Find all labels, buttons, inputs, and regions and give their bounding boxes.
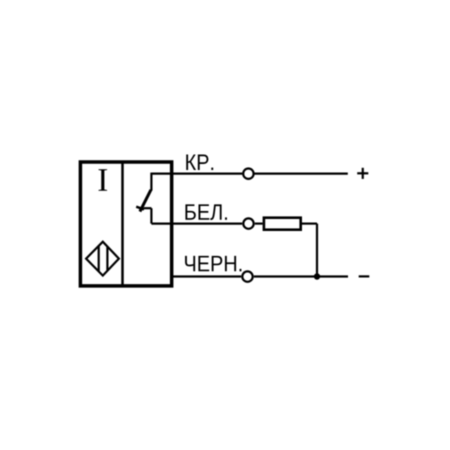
label KR. <box>186 155 196 170</box>
resistor R1 <box>264 218 301 230</box>
inductive sensor symbol (rhombus) <box>86 242 119 276</box>
terminal circle BEL <box>243 218 253 228</box>
wire BEL (white) from switch to terminal <box>151 223 242 225</box>
switch S1 upper lead <box>150 173 152 191</box>
wire CHERN (black) from body to terminal <box>172 275 242 277</box>
switch S1 fixed contact horizontal <box>144 207 152 209</box>
wire resistor to corner <box>302 223 317 225</box>
terminal circle CHERN <box>242 271 252 281</box>
rhombus inner right chord <box>106 247 108 270</box>
wire BEL terminal to resistor <box>255 223 263 225</box>
wire KR (red) from switch to terminal <box>151 173 242 175</box>
label BEL. <box>185 204 195 219</box>
switch S1 moving contact (diagonal blade) <box>140 190 151 212</box>
label CHERN. <box>185 256 195 271</box>
label I (sensor marking) <box>98 169 107 191</box>
wire CHERN terminal to minus <box>254 275 348 277</box>
rhombus inner left chord <box>98 246 100 272</box>
sensor body U1 (rectangle) <box>80 162 171 286</box>
sensor body internal divider <box>121 161 124 288</box>
wire corner down to CHERN line <box>316 224 318 277</box>
terminal circle KR <box>243 169 253 179</box>
switch S1 lower lead <box>150 208 152 223</box>
minus sign <box>359 275 370 277</box>
switch S1 actuator tick <box>136 207 144 210</box>
plus sign <box>357 172 368 174</box>
wire KR terminal to plus <box>254 173 347 175</box>
junction dot <box>314 273 320 279</box>
